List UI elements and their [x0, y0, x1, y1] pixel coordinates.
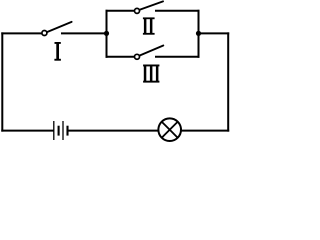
battery cell plate short 2 [66, 126, 68, 136]
battery cell plate short 1 [58, 126, 60, 136]
wire: right vertical side [227, 33, 229, 130]
wire: lamp to bottom-right corner [181, 130, 228, 132]
label I [54, 42, 61, 61]
switch II pivot circle [135, 8, 140, 13]
lamp cross line 2 [162, 122, 178, 138]
label II [143, 17, 155, 34]
wire: left vertical side [1, 33, 3, 130]
node right junction dot [196, 31, 201, 36]
switch III blade [139, 46, 163, 56]
switch I pivot circle [42, 31, 47, 36]
label III [143, 65, 159, 83]
switch III pivot circle [135, 54, 140, 59]
switch I blade [47, 22, 72, 32]
battery cell plate long 2 [62, 121, 64, 140]
wire: parallel box left edge [106, 11, 108, 57]
wire: bottom branch left segment [107, 56, 135, 58]
wire: top branch right segment (switch II contact) [156, 10, 199, 12]
wire: top branch left segment [107, 10, 135, 12]
node left junction dot [104, 31, 109, 36]
wire: switch I contact to left node [62, 32, 107, 34]
wire: right node to right corner [199, 32, 229, 34]
wire: parallel box right edge [198, 11, 200, 57]
lamp cross line 1 [162, 122, 178, 138]
switch II blade [139, 1, 163, 10]
wire: top-left horizontal from left corner to switch I [2, 32, 41, 34]
battery cell plate long 1 [53, 121, 55, 140]
wire: battery to lamp [68, 130, 159, 132]
wire: bottom branch right segment (switch III contact) [156, 56, 199, 58]
lamp circle [158, 118, 181, 141]
wire: bottom left to battery [2, 130, 53, 132]
